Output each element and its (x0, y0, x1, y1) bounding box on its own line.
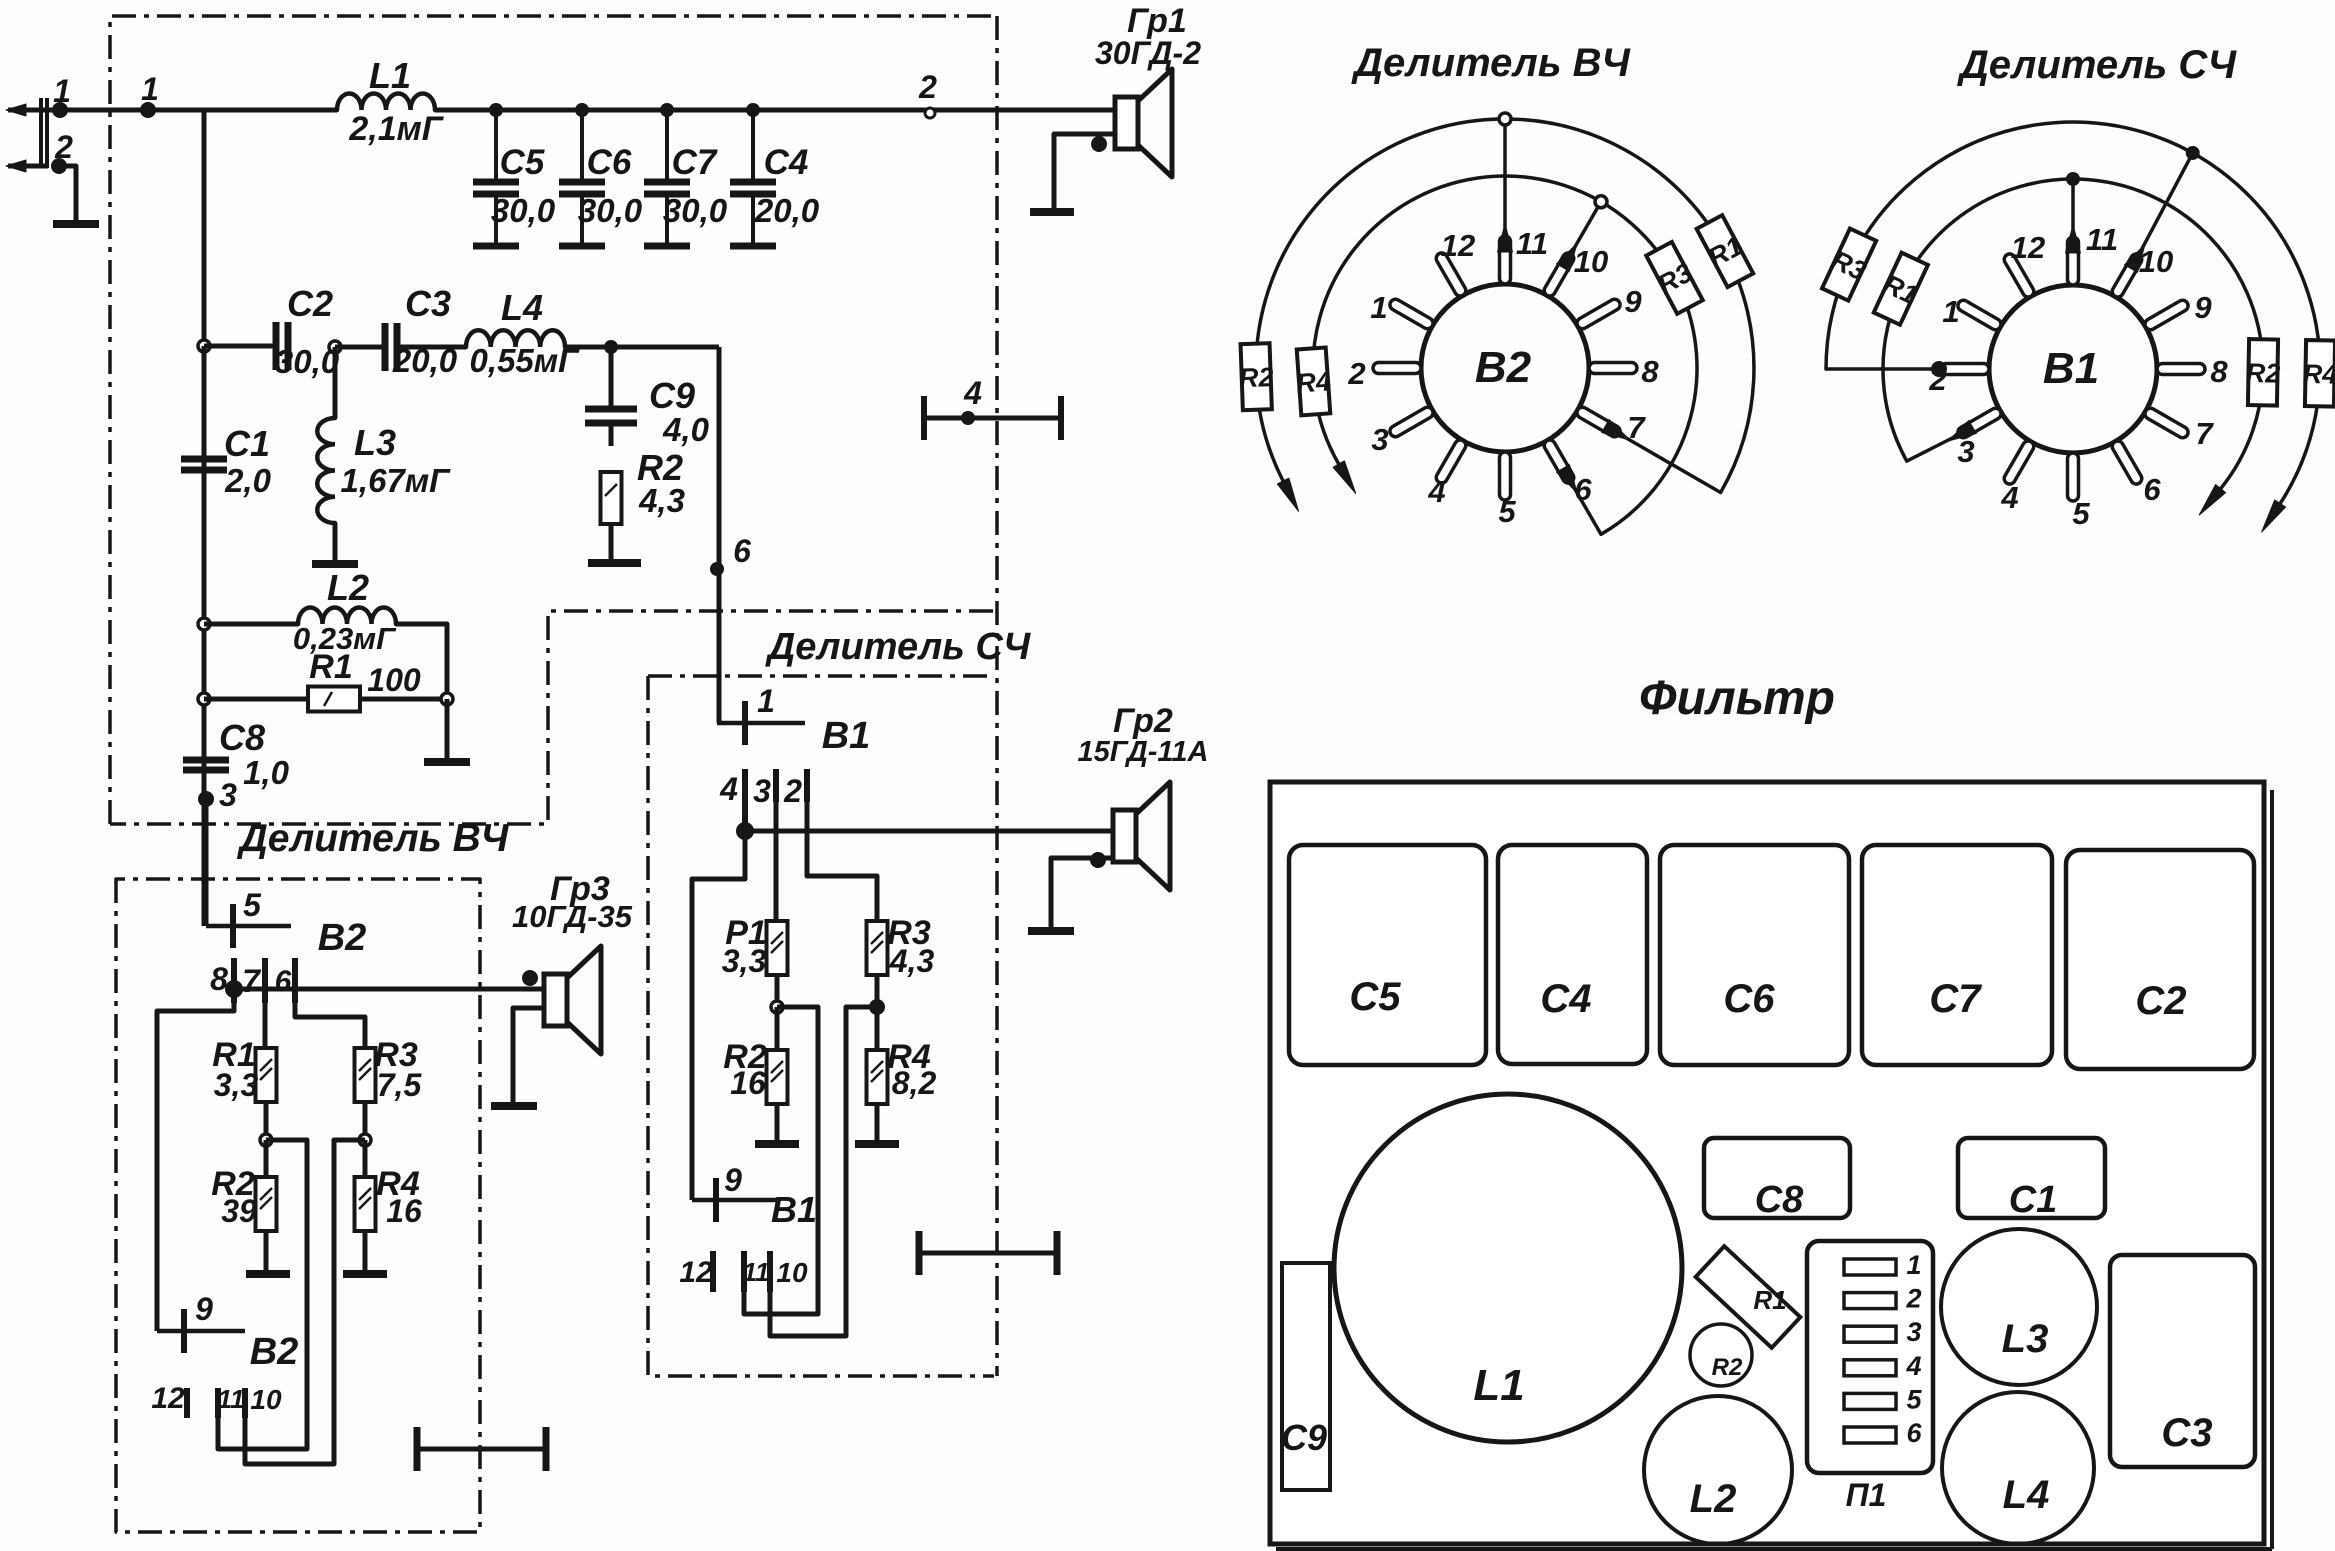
resistor R1 (B2) (256, 1048, 277, 1102)
svg-text:8: 8 (2210, 354, 2228, 389)
wire junction to bar 10 loop (245, 1140, 365, 1464)
resistor R3 (B1) (867, 921, 888, 975)
wire down left column (202, 346, 207, 926)
svg-text:B2: B2 (250, 1331, 299, 1373)
resistor R1 on B1 inner arc (1871, 251, 1930, 325)
node junction C6 (575, 103, 589, 117)
B1 inner arc top dot (2066, 172, 2080, 186)
svg-text:3,3: 3,3 (214, 1067, 259, 1103)
svg-text:1: 1 (1906, 1250, 1921, 1280)
node 3 (198, 791, 214, 807)
ground under L3 (312, 560, 358, 568)
P1 pin 6 (1844, 1427, 1896, 1443)
svg-text:11: 11 (218, 1384, 245, 1414)
svg-text:16: 16 (386, 1193, 422, 1229)
svg-text:3: 3 (219, 777, 237, 813)
node R1 junction right (441, 693, 453, 705)
capacitor C2 (273, 322, 280, 370)
B2 pin 2 (1373, 363, 1421, 374)
svg-text:3,3: 3,3 (722, 943, 767, 979)
board inductor L4 circle (1942, 1392, 2094, 1544)
svg-text:Делитель СЧ: Делитель СЧ (765, 626, 1031, 668)
svg-text:B2: B2 (318, 917, 367, 959)
inductor L3 (333, 347, 338, 418)
terminal bar 4 (742, 769, 748, 828)
inductor L4 (466, 330, 565, 347)
wire L2 to right corner (396, 624, 447, 699)
svg-text:L4: L4 (501, 287, 543, 328)
svg-text:3: 3 (753, 773, 771, 809)
jumper link in B1 box (919, 1251, 1057, 1256)
wire bus down to branch (202, 110, 207, 346)
P1 pin 1 (1844, 1259, 1896, 1275)
ground under R2 (B1) (755, 1140, 799, 1148)
svg-text:2: 2 (1347, 356, 1365, 391)
svg-text:9: 9 (195, 1291, 213, 1327)
svg-text:1: 1 (1942, 294, 1959, 329)
wire bus L1 to speaker (435, 108, 1115, 113)
svg-text:10ГД-35: 10ГД-35 (512, 899, 633, 934)
svg-text:R4: R4 (1295, 366, 1332, 398)
wire junction to bar 11 loop (218, 1140, 307, 1449)
svg-text:4,0: 4,0 (662, 411, 710, 448)
svg-text:C2: C2 (287, 283, 333, 324)
B2 pin 1 (1388, 297, 1435, 331)
wire L4 node down to node 6 (717, 347, 722, 723)
node R1 junction left (198, 693, 210, 705)
P1 pin 4 (1844, 1360, 1896, 1376)
ground at input (53, 220, 99, 228)
board resistor R2 circle (1690, 1324, 1752, 1386)
B1 pin 5 (2068, 453, 2079, 501)
switch B2 rotor circle (1421, 284, 1589, 452)
svg-text:5: 5 (2072, 496, 2090, 531)
B2 pin 9 (1575, 297, 1622, 331)
terminal bar 6 (292, 958, 298, 1003)
B2 outer arc top circle (1499, 113, 1511, 125)
capacitor C6 (580, 110, 584, 182)
node input 2 (51, 158, 67, 174)
B2 inner arc circle pin10 (1595, 196, 1607, 208)
wire bar3 to P1 (774, 802, 779, 922)
svg-text:Делитель ВЧ: Делитель ВЧ (1351, 41, 1630, 85)
svg-text:R4: R4 (2302, 359, 2335, 390)
node L2 junction (198, 618, 210, 630)
svg-text:L3: L3 (354, 422, 396, 463)
svg-text:100: 100 (367, 662, 421, 698)
svg-text:12: 12 (2011, 230, 2045, 265)
input arrow terminal 2 (8, 164, 48, 169)
svg-text:L1: L1 (369, 55, 411, 96)
terminal bar 10 (242, 1388, 248, 1418)
svg-text:30,0: 30,0 (578, 192, 643, 229)
B2 wiper line pin 11 (1503, 119, 1507, 240)
svg-text:C5: C5 (1349, 975, 1401, 1019)
svg-text:C7: C7 (1929, 977, 1982, 1021)
svg-text:3: 3 (1906, 1317, 1921, 1347)
resistor R4 (B2) (355, 1177, 376, 1231)
wire node to terminal 9 (B1) (692, 831, 745, 1200)
wire node3 to terminal 5 (204, 799, 209, 926)
Gr1 terminal dot (1091, 136, 1107, 152)
svg-text:6: 6 (275, 965, 292, 998)
terminal 4 link (924, 416, 1061, 421)
svg-text:C5: C5 (500, 143, 545, 182)
resistor R4 (B1) (867, 1050, 888, 1104)
svg-text:4: 4 (2000, 480, 2018, 515)
filter board bottom shadow edge (1276, 1547, 2272, 1551)
resistor R4 on B2 inner arc (1294, 347, 1333, 415)
svg-text:5: 5 (1906, 1384, 1922, 1414)
node 6 (710, 562, 724, 576)
svg-text:C9: C9 (1281, 1417, 1327, 1458)
board capacitor C8 (1704, 1138, 1850, 1218)
svg-text:7: 7 (2195, 416, 2214, 451)
node C9 junction (604, 340, 618, 354)
B1 wiper line pin 10 (2137, 153, 2193, 258)
svg-text:L4: L4 (2003, 1473, 2050, 1517)
board inductor L1 circle (1334, 1094, 1682, 1442)
svg-text:12: 12 (151, 1382, 185, 1415)
svg-text:15ГД-11А: 15ГД-11А (1078, 736, 1209, 768)
svg-text:20,0: 20,0 (754, 192, 820, 229)
B1 pin 10 (2110, 252, 2144, 299)
inductor L1 (337, 93, 435, 110)
B1 pin 12 (2002, 252, 2036, 299)
svg-text:8: 8 (1641, 354, 1659, 389)
terminal bar 8 (231, 958, 237, 1003)
B2 wiper line pin 7 (1616, 432, 1721, 493)
loudspeaker Gr1 (1115, 97, 1138, 149)
resistor R1 filter (308, 687, 360, 712)
svg-text:6: 6 (1906, 1418, 1922, 1448)
input jack plug bars (39, 98, 43, 168)
terminal bar 11 (B1) (741, 1251, 747, 1292)
svg-text:4: 4 (1905, 1351, 1921, 1381)
svg-text:4: 4 (963, 375, 982, 411)
node 1 on bus (140, 102, 156, 118)
node terminal 4 (961, 411, 975, 425)
svg-text:2: 2 (918, 69, 937, 105)
board capacitor C3 (2110, 1255, 2255, 1467)
resistor R2 on B2 outer arc (1238, 343, 1275, 410)
node after C2 (329, 341, 341, 353)
wire R3 to junction (875, 975, 880, 1007)
divider SCh dash-dot box (B1) (648, 676, 994, 1376)
B1 pin 2 tip dot (1931, 361, 1947, 377)
resistor R3 (B2) (355, 1048, 376, 1102)
wire L4 to corner (565, 345, 719, 350)
filter section dash-dot border (110, 16, 997, 824)
board resistor R1 (1696, 1236, 1810, 1348)
svg-text:Делитель ВЧ: Делитель ВЧ (237, 817, 510, 860)
svg-text:5: 5 (1498, 494, 1516, 529)
svg-text:0,55мГ: 0,55мГ (470, 342, 581, 379)
svg-text:C3: C3 (405, 283, 451, 324)
node B2 output (225, 980, 243, 998)
wire R3 to junction (363, 1102, 368, 1140)
svg-text:C7: C7 (672, 143, 718, 182)
wire R1 to junction (264, 1102, 269, 1140)
svg-text:4: 4 (1427, 474, 1445, 509)
svg-text:30,0: 30,0 (491, 192, 556, 229)
B2 pin 6 (1542, 438, 1576, 485)
terminal 1 (717, 721, 805, 726)
B2 wiper line pin 10 (1569, 202, 1601, 257)
svg-text:2: 2 (783, 773, 802, 809)
svg-text:Фильтр: Фильтр (1639, 672, 1835, 725)
B1 pin 1 (1956, 298, 2003, 332)
B1 pin 3 (1956, 406, 2003, 440)
svg-text:C4: C4 (764, 143, 809, 182)
node R1-R2 junction (260, 1134, 272, 1146)
wire bar7 to R1 (263, 1003, 268, 1047)
svg-text:П1: П1 (1846, 1477, 1887, 1513)
svg-text:10: 10 (776, 1257, 808, 1288)
wire junction to R4 (363, 1140, 368, 1176)
terminal 5 (206, 924, 291, 929)
svg-text:Делитель СЧ: Делитель СЧ (1957, 43, 2237, 87)
board capacitor C2 (2066, 850, 2254, 1069)
B1 inner arc right arrow (2199, 484, 2225, 515)
P1 pin 3 (1844, 1326, 1896, 1342)
wire node2 to ground (59, 166, 76, 222)
board capacitor C7 (1862, 845, 2052, 1065)
board capacitor C9 (1282, 1263, 1330, 1490)
input arrow terminal 1 (8, 108, 58, 113)
B1 pin 7 (2143, 406, 2190, 440)
svg-text:C3: C3 (2161, 1411, 2212, 1455)
svg-text:1: 1 (1370, 290, 1387, 325)
wire to ground right of R1 (445, 699, 450, 760)
svg-text:B1: B1 (2043, 344, 2099, 393)
node junction C5 (489, 103, 503, 117)
node R3-R4 junction (359, 1134, 371, 1146)
board connector P1 (1807, 1241, 1933, 1473)
board inductor L2 circle (1644, 1396, 1792, 1544)
svg-text:1: 1 (757, 683, 775, 719)
B1 pin 9 (2143, 298, 2190, 332)
capacitor C5 (494, 110, 498, 182)
P1 pin 5 (1844, 1393, 1896, 1409)
filter border right edge (995, 16, 999, 1376)
svg-text:B1: B1 (822, 715, 871, 757)
Gr3 terminal dot (522, 970, 538, 986)
svg-text:11: 11 (743, 1257, 770, 1287)
svg-text:C9: C9 (649, 375, 695, 416)
B2 wiper line pin 6 (1569, 479, 1601, 534)
svg-text:30ГД-2: 30ГД-2 (1095, 35, 1201, 71)
svg-text:C1: C1 (224, 423, 270, 464)
svg-text:L2: L2 (1690, 1477, 1737, 1521)
node branch junction (198, 340, 210, 352)
B1 outer arc dot pin10 (2186, 146, 2200, 160)
wire junction to R4 (B1) (875, 1007, 880, 1051)
svg-text:2: 2 (54, 129, 73, 165)
wire L3 to ground (333, 523, 338, 562)
B1 pin 11 (2068, 237, 2079, 285)
ground under R1/L2 (424, 758, 470, 766)
wire Gr2 to ground (1051, 858, 1113, 929)
svg-text:4: 4 (719, 771, 738, 807)
svg-text:6: 6 (733, 533, 751, 569)
node 2 (925, 108, 935, 118)
terminal bar 12 (B1) (710, 1251, 716, 1292)
svg-text:R2: R2 (1712, 1354, 1743, 1381)
terminal bar 3 (773, 769, 779, 802)
ground at Gr1 (1030, 208, 1074, 216)
resistor R1 on B2 outer arc right (1694, 214, 1755, 288)
B2 pin 12 (1434, 251, 1468, 298)
switch B1 rotor circle (1989, 285, 2157, 453)
node junction C4 (746, 103, 760, 117)
svg-text:11: 11 (2086, 222, 2118, 257)
svg-text:2: 2 (1905, 1284, 1921, 1314)
B2 inner contact arc (1313, 176, 1697, 534)
wire R2 to ground (609, 524, 614, 561)
wire L2 left lead (204, 622, 298, 627)
wire C9 to R2 (609, 423, 614, 446)
svg-text:C8: C8 (1755, 1179, 1804, 1221)
B2 pin 3 (1388, 405, 1435, 439)
P1 pin 2 (1844, 1293, 1896, 1309)
resistor R2 on B1 inner arc right (2245, 339, 2281, 406)
svg-text:R2: R2 (2245, 358, 2280, 389)
svg-text:L1: L1 (1473, 1361, 1524, 1410)
svg-text:11: 11 (1516, 226, 1548, 261)
B1 pin 8 (2157, 364, 2205, 375)
wire R2 to ground (264, 1231, 269, 1272)
svg-text:1: 1 (53, 73, 71, 109)
B2 pin 4 (1434, 438, 1468, 485)
svg-text:B1: B1 (771, 1189, 817, 1230)
resistor R2 (B2) (256, 1177, 277, 1231)
node input 1 (52, 102, 68, 118)
node B1 output (736, 822, 754, 840)
B1 pin 6 (2110, 439, 2144, 486)
svg-text:C4: C4 (1540, 977, 1591, 1021)
wire C3 to L4 (397, 345, 466, 350)
wire junction to R2 (264, 1140, 269, 1176)
svg-text:12: 12 (1441, 228, 1475, 263)
wire branch to C2 (204, 344, 276, 349)
wire B1 to speaker Gr2 (745, 829, 1113, 834)
svg-text:7: 7 (242, 963, 262, 999)
Gr2 terminal dot (1090, 852, 1106, 868)
capacitor C9 (609, 347, 614, 409)
capacitor C4 (751, 110, 755, 182)
svg-text:30,0: 30,0 (663, 192, 728, 229)
svg-text:L2: L2 (327, 567, 369, 608)
board capacitor C5 (1289, 845, 1486, 1065)
svg-text:1,0: 1,0 (243, 754, 290, 791)
B2 pin 11 (1500, 236, 1511, 284)
capacitor C8 (183, 757, 229, 764)
filter board outline (1270, 782, 2264, 1544)
svg-text:Гр2: Гр2 (1113, 702, 1173, 740)
svg-text:L3: L3 (2002, 1317, 2049, 1361)
terminal 9 (B1) (692, 1198, 778, 1203)
svg-text:C1: C1 (2009, 1179, 2058, 1221)
wire R4 to ground (363, 1231, 368, 1272)
B1 pin 2 (1941, 364, 1989, 375)
ground under R4 (B2) (343, 1270, 387, 1278)
capacitor C1 (181, 456, 227, 463)
board capacitor C6 (1660, 845, 1849, 1065)
svg-text:4,3: 4,3 (889, 943, 935, 979)
filter border inner step (110, 611, 993, 824)
wire R1 row (204, 697, 447, 702)
wire node to terminal 9 (157, 989, 234, 1331)
B1 wiper line pin 2 (1826, 367, 1945, 371)
svg-text:8,2: 8,2 (892, 1065, 937, 1101)
terminal bar 10 (B1) (767, 1251, 773, 1292)
wire P1 to junction (775, 975, 780, 1007)
B1 wiper line pin 11 (2071, 179, 2075, 241)
svg-text:4,3: 4,3 (638, 482, 685, 519)
ground at Gr2 (1028, 927, 1074, 935)
wire junction to R2 (B1) (775, 1007, 780, 1051)
wire input bus (58, 108, 337, 113)
svg-text:9: 9 (1624, 284, 1642, 319)
wire C2 to C3 (335, 345, 385, 350)
resistor R2 (B1) (767, 1050, 788, 1104)
svg-text:1: 1 (141, 71, 159, 107)
resistor P1 (B1) (767, 921, 788, 975)
jumper link in B2 box (417, 1447, 546, 1452)
wire R4 to ground (B1) (875, 1104, 880, 1142)
B2 pin 7 (1575, 405, 1622, 439)
wire Gr3 to ground (513, 1008, 544, 1104)
wire bar2 to R3 (807, 802, 877, 922)
svg-text:C6: C6 (587, 143, 632, 182)
terminal bar 2 (804, 769, 810, 802)
ground at Gr3 (491, 1102, 537, 1110)
svg-text:10: 10 (1574, 244, 1608, 279)
svg-text:C2: C2 (2135, 979, 2186, 1023)
ground under R2 (B2) (246, 1270, 290, 1278)
svg-text:2,0: 2,0 (224, 462, 272, 499)
board inductor L3 circle (1941, 1229, 2097, 1385)
B1 outer contact arc (1826, 122, 2320, 503)
svg-text:39: 39 (221, 1193, 257, 1229)
B2 inner arc left arrow (1333, 461, 1356, 494)
svg-text:16: 16 (730, 1065, 766, 1101)
terminal bar 11 (215, 1388, 221, 1418)
svg-text:R1: R1 (309, 648, 352, 686)
svg-text:R2: R2 (1238, 362, 1274, 393)
terminal bar 7 (262, 958, 268, 1003)
svg-text:9: 9 (2194, 290, 2212, 325)
node P1-R2 junction (B1) (771, 1001, 783, 1013)
svg-text:C6: C6 (1723, 977, 1775, 1021)
wire R2 to ground (B1) (775, 1104, 780, 1142)
ground under R2 filter (588, 559, 641, 567)
loudspeaker Gr3 (544, 974, 567, 1026)
wire B2 to speaker Gr3 (234, 987, 544, 992)
divider SCh box top edge (648, 674, 994, 678)
B1 wiper line pin 3 (1907, 433, 1962, 461)
node R3-R4 junction (B1) (869, 999, 885, 1015)
svg-text:3: 3 (1371, 422, 1388, 457)
node junction C7 (660, 103, 674, 117)
B2 outer arc left arrow (1277, 478, 1298, 511)
wire junction to bar 11 loop (B1) (744, 1007, 818, 1314)
B2 pin 8 (1589, 363, 1637, 374)
svg-text:6: 6 (2143, 472, 2161, 507)
capacitor C7 (665, 110, 669, 182)
B1 pin 4 (2002, 439, 2036, 486)
